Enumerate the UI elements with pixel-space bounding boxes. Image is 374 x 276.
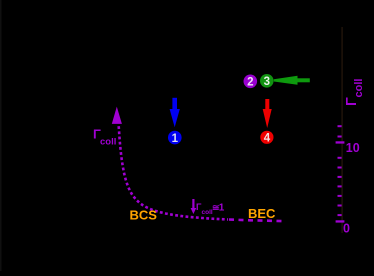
- tick label 10: [346, 141, 360, 155]
- svg-text:coll: coll: [353, 79, 365, 98]
- right axis major tick 0: [336, 220, 345, 222]
- svg-text:3: 3: [264, 76, 270, 88]
- small down arrow at curve: [191, 199, 197, 214]
- curve tail (longer dashes): [229, 220, 283, 222]
- marker 2 (purple circle): [244, 75, 258, 89]
- arrow 1 (blue, down): [170, 98, 180, 128]
- right axis minor ticks: [338, 125, 342, 216]
- label BCS: [130, 207, 158, 222]
- svg-text:1: 1: [172, 133, 179, 145]
- svg-text:10: 10: [346, 141, 360, 155]
- label BEC: [248, 206, 276, 221]
- svg-text:4: 4: [264, 133, 271, 145]
- arrow 3 (green, left): [274, 76, 310, 85]
- right axis major tick 10: [336, 141, 345, 143]
- svg-text:BEC: BEC: [248, 206, 276, 221]
- right axis spine (faint): [341, 27, 343, 233]
- collision-rate curve (dotted magenta): [119, 126, 228, 219]
- curve up-arrowhead: [112, 107, 122, 124]
- svg-text:coll: coll: [100, 137, 116, 148]
- svg-text:2: 2: [247, 77, 253, 89]
- label Gamma_coll (left): [93, 127, 116, 148]
- svg-text:1: 1: [219, 203, 225, 214]
- svg-text:0: 0: [343, 222, 350, 236]
- arrow 4 (red, down): [263, 99, 272, 128]
- label Gamma_coll ~ 1: [196, 202, 225, 216]
- marker 4 (red circle): [260, 131, 273, 145]
- marker 1 (blue circle): [168, 131, 182, 145]
- left edge line (faint): [0, 0, 2, 271]
- svg-text:BCS: BCS: [130, 207, 158, 222]
- tick label 0: [343, 222, 350, 236]
- marker 3 (green circle): [260, 74, 274, 88]
- right axis label Gamma_coll (rotated): [344, 79, 365, 106]
